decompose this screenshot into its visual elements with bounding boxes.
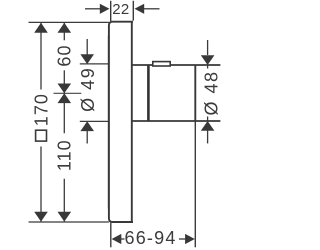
wall plate front face inner line [108,36,110,209]
svg-text:170: 170 [31,93,51,126]
dimension 170: line upper segment [40,23,42,90]
dimension diameter 49: bottom tail [86,131,88,144]
svg-text:22: 22 [112,1,130,18]
dimension 60: line upper segment [63,23,65,40]
svg-text:Ø 49: Ø 49 [78,67,98,112]
centerline of knob (extension) [54,92,82,94]
extension line sleeve bottom (left) [80,120,109,122]
wall plate outline (side view, rounded front corners) [109,22,133,222]
dimension diameter 49: bottom arrow (up) [80,121,94,131]
dimension diameter 48: top arrow (down) [201,55,215,65]
sleeve bottom / knob bottom edge [132,120,221,122]
dimension 66-94: left stub [121,238,125,240]
dimension 22: left extension line [110,1,112,21]
dimension 22: right extension line [132,1,134,21]
svg-text:110: 110 [55,139,75,171]
dimension diameter 48: top tail [207,40,209,55]
dimension diameter 49: top tail [86,39,88,55]
dimension 60: top arrow (up) [58,23,72,33]
dimension 170: square symbol [36,130,47,141]
dimension 60: bottom arrow (down, bowtie top half) [58,84,72,94]
dimension 66-94: right stub [179,238,186,240]
dimension diameter 48: bottom tail [207,131,209,144]
dimension 170: top arrow (up) [34,23,48,33]
sleeve/knob boundary line [147,66,150,121]
dimension 66-94: right extension line (from knob front) [194,122,196,248]
dimension 66-94: right arrow (right-pointing) [185,234,195,244]
dimension 110: line lower segment [63,179,65,222]
dimension diameter 48: line through span [207,65,209,121]
dimension 66-94: left arrow (left-pointing) [112,234,122,244]
dimension 66-94: left extension line [110,223,112,248]
extension line sleeve top (left) [80,63,109,65]
dimension 170: line lower segment [40,147,42,222]
dimension diameter 48: bottom arrow (up) [201,121,215,131]
dimension 110: line upper segment [63,93,65,133]
dimension 170: bottom arrow (down) [34,212,48,222]
dimension 110: bottom arrow (down) [58,212,72,222]
dimension 60: line lower segment [63,70,65,93]
dimension diameter 49: top arrow (down) [80,54,94,64]
bottom extension line (left of plate, at plate bottom) [29,221,109,223]
dimension 22: left tail [85,8,100,10]
svg-text:Ø 48: Ø 48 [201,70,221,115]
knob front (right) edge [194,65,196,122]
dimension 22: right arrow (left-pointing) [135,4,145,14]
sleeve top / knob top edge [132,64,221,66]
dimension 22: right tail [144,8,160,10]
clip bump on knob top [153,62,170,66]
dimension diameter 48: text background [203,69,221,117]
dimension 110: top arrow (up, bowtie bottom half) [58,93,72,103]
svg-text:66-94: 66-94 [125,228,177,248]
wall plate rear edge [131,22,133,222]
top extension line (left of plate, at plate top) [29,21,109,23]
dimension 22: left arrow (right-pointing) [100,4,110,14]
svg-text:60: 60 [55,44,75,66]
